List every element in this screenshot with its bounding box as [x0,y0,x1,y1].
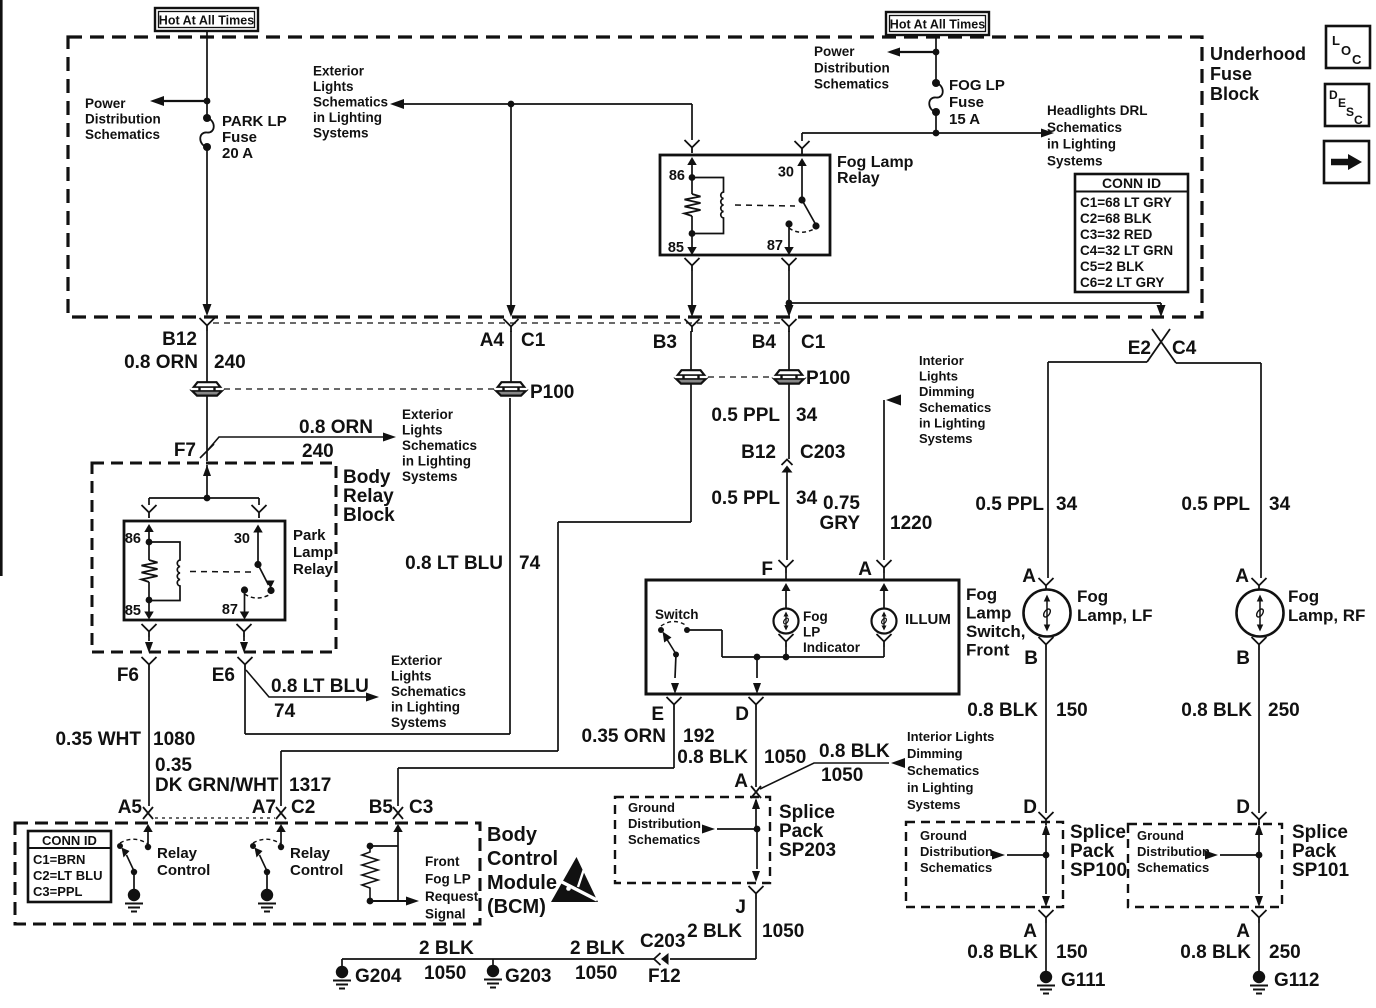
svg-text:C1=BRN: C1=BRN [33,852,85,867]
label Power Distribution Schematics right [814,44,890,92]
wire D to SP203 [755,710,757,787]
label B12 [162,329,197,350]
svg-text:B5: B5 [369,797,394,818]
wire E2 to LF [1048,362,1147,578]
BCM request resistor [362,824,419,906]
label Switch [655,607,699,622]
wire B4 chevron to P100 [788,331,790,371]
Body Relay Block outline [92,463,336,652]
svg-text:in Lighting: in Lighting [391,700,460,715]
svg-text:D: D [1236,797,1250,818]
wire branch to power distribution right [887,48,936,57]
label 2 BLK 1050 J [687,921,804,942]
label 0.8 LT BLU 74 ref [271,676,369,722]
label A RF [1235,566,1249,587]
svg-text:Splice: Splice [1070,822,1126,843]
svg-text:Systems: Systems [1047,153,1103,168]
park pin30 label [234,531,250,547]
wire to G111 [1045,923,1047,971]
BCM connector dotted link [155,817,275,819]
wire E to B5 [398,710,674,806]
label 2 BLK 1050 left [419,938,474,984]
terminal fog relay 30 [795,141,810,154]
svg-text:C3=32 RED: C3=32 RED [1080,227,1153,242]
terminal E [667,697,682,710]
BCM relay control 1 [117,824,153,912]
wire park 85 down [145,637,153,653]
svg-text:74: 74 [519,553,541,574]
svg-text:B: B [1024,648,1038,669]
svg-text:Power: Power [85,96,126,111]
coil fog relay [692,178,724,234]
svg-text:PARK LP: PARK LP [222,113,287,130]
label Exterior Lights Schematics E6 [391,653,466,730]
lamp Fog Lamp LF [1024,590,1071,637]
terminal below illum [877,634,892,647]
svg-text:Fuse: Fuse [1210,64,1252,84]
svg-text:240: 240 [214,352,246,373]
svg-text:0.5 PPL: 0.5 PPL [711,488,780,509]
label Front Fog LP Request Signal [425,854,479,922]
wire branch to power distribution [150,96,207,106]
svg-text:C4=32 LT GRN: C4=32 LT GRN [1080,243,1173,258]
label Fog LP Indicator [803,609,861,655]
svg-text:Lights: Lights [402,423,443,438]
pin 85 arrow [687,234,697,256]
svg-text:C: C [1354,113,1363,127]
svg-text:Dimming: Dimming [907,746,963,761]
svg-text:B: B [1236,648,1250,669]
reference arrow interior dimming top [884,395,901,561]
svg-text:C2=LT BLU: C2=LT BLU [33,868,102,883]
label 0.8 BLK 1050 D [677,747,806,768]
label G203 [505,966,551,987]
label G111 [1061,970,1106,991]
node relay blade end [812,222,819,229]
svg-text:F: F [761,559,773,580]
svg-text:FOG LP: FOG LP [949,77,1005,94]
terminal LF A [1039,578,1054,591]
wire to G112 [1258,923,1260,971]
reference tap 0.8 ORN 240 [207,433,396,452]
svg-text:D: D [1329,88,1338,102]
node relay coil bottom [689,230,696,237]
node park switch pivot [254,561,261,568]
terminal D SP100 [1039,812,1054,825]
Splice Pack SP203 label [779,802,836,861]
wire B3 down [690,331,692,371]
terminal J [749,886,764,899]
svg-text:SP100: SP100 [1070,860,1127,881]
svg-text:87: 87 [767,238,783,254]
svg-text:0.5 PPL: 0.5 PPL [711,405,780,426]
label B5 C3 [369,797,434,818]
label Fog Lamp RF [1288,587,1365,625]
label B12 C203 [741,442,845,463]
label J [735,897,746,918]
svg-text:Front: Front [966,641,1010,660]
connector C203 F12 [654,953,669,965]
svg-text:Block: Block [1210,84,1260,104]
svg-text:DK GRN/WHT: DK GRN/WHT [155,775,279,796]
svg-text:Relay: Relay [293,561,334,578]
svg-text:0.5 PPL: 0.5 PPL [1181,494,1250,515]
svg-text:1050: 1050 [762,921,804,942]
node relay switch pivot [798,196,805,203]
svg-text:1050: 1050 [821,765,863,786]
label F7 [174,440,196,461]
break slash F7 [200,444,214,458]
svg-text:15 A: 15 A [949,111,980,128]
pin87 label [767,238,783,254]
svg-text:Schematics: Schematics [1137,860,1209,875]
svg-text:F7: F7 [174,440,196,461]
label Relay Control 2 [290,845,343,879]
svg-text:Schematics: Schematics [814,77,889,92]
wire to E2 [789,303,1166,317]
svg-text:A: A [1235,566,1249,587]
svg-text:Schematics: Schematics [628,832,700,847]
splice SP101 [1205,824,1263,907]
svg-text:1317: 1317 [289,775,331,796]
terminal fog relay 86 [685,140,700,153]
pin 30 arrow [797,158,807,200]
label A illum [858,559,872,580]
svg-text:in Lighting: in Lighting [313,110,382,125]
svg-text:G111: G111 [1061,970,1106,991]
svg-text:C6=2 LT GRY: C6=2 LT GRY [1080,275,1164,290]
svg-text:C2: C2 [291,797,315,818]
Underhood Fuse Block outline [68,37,1202,317]
svg-text:E: E [1338,96,1346,110]
svg-text:C3=PPL: C3=PPL [33,884,83,899]
label D SP101 [1236,797,1250,818]
svg-text:Body: Body [343,467,391,488]
terminal park relay 86 [142,505,157,518]
svg-text:85: 85 [125,603,141,619]
svg-text:C5=2 BLK: C5=2 BLK [1080,259,1144,274]
svg-text:Body: Body [487,824,538,846]
wire E6 to A4C1 net [245,398,510,734]
crossover A5 [143,807,153,819]
svg-text:in Lighting: in Lighting [1047,137,1116,152]
svg-text:Exterior: Exterior [402,407,454,422]
ESD symbol [551,857,598,902]
svg-text:Fog: Fog [1077,587,1108,606]
wire B4 to C203 [788,384,790,459]
ground G112 [1250,971,1268,994]
terminal fog relay 85 out [685,258,700,271]
terminal B12 [200,318,215,331]
svg-text:0.8 BLK: 0.8 BLK [677,747,748,768]
svg-text:Switch: Switch [655,607,699,622]
connector dashed link B3-P100 [708,376,772,378]
svg-text:C203: C203 [640,931,685,952]
label 0.8 ORN 240 ref [299,417,373,462]
wire switch to E pin [671,654,679,694]
label 0.8 BLK 150 G111 [967,942,1087,963]
node relay 87 contact [785,220,792,227]
terminal park 85 out [142,624,157,637]
node park coil top [146,539,153,546]
connector P100 on B4 wire [773,370,805,383]
wire to relay pin30 [801,133,803,141]
svg-text:34: 34 [796,488,818,509]
wire A4 down [507,104,516,317]
label P100 B4 [806,368,850,389]
svg-text:G204: G204 [355,966,402,987]
label A5 [118,797,143,818]
svg-text:(BCM): (BCM) [487,896,546,918]
svg-text:Fog: Fog [803,609,828,624]
svg-text:1220: 1220 [890,513,932,534]
dashed coil-switch link [735,205,795,206]
svg-text:C2=68 BLK: C2=68 BLK [1080,211,1152,226]
CONN ID table underhood [1075,174,1188,292]
svg-text:Schematics: Schematics [391,684,466,699]
dashed park throw arc [245,594,270,598]
label A7 C2 [252,797,316,818]
coil park relay [149,542,180,601]
svg-text:Hot At All Times: Hot At All Times [159,14,254,28]
label 0.5 PPL 34 RF [1181,494,1290,515]
switch box Fog Lamp Switch [646,580,959,694]
svg-text:0.8 BLK: 0.8 BLK [1181,700,1252,721]
svg-text:85: 85 [668,240,684,256]
svg-text:Exterior: Exterior [391,653,443,668]
reference tap interior dimming bottom [760,758,905,789]
terminal switch F [779,560,794,582]
svg-text:F6: F6 [117,665,139,686]
splice SP203 [702,798,760,882]
svg-text:Exterior: Exterior [313,64,365,79]
terminal below indicator [779,634,794,647]
svg-text:Distribution: Distribution [85,112,161,127]
label 0.35 WHT 1080 [55,729,195,750]
label G112 [1274,970,1319,991]
label 0.5 PPL 34 lower [711,488,817,509]
wire J down [670,899,756,959]
svg-text:Control: Control [157,862,210,879]
svg-text:0.8 LT BLU: 0.8 LT BLU [271,676,369,697]
park pin85 label [125,603,141,619]
label 0.75 GRY 1220 [820,493,933,534]
svg-text:Systems: Systems [402,469,458,484]
label ILLUM [905,611,951,628]
svg-text:LP: LP [803,625,820,640]
label C203 F12 [640,931,685,987]
label Ground Distribution SP100 [920,828,993,875]
lamp ILLUM [872,609,897,634]
label F6 [117,665,139,686]
node park 87 contact [241,586,248,593]
connector P100 on A4 wire [495,382,527,395]
svg-text:Schematics: Schematics [1047,120,1122,135]
svg-text:0.35 WHT: 0.35 WHT [55,729,141,750]
svg-text:E: E [651,704,664,725]
wire 87 to B4 [785,271,794,317]
svg-text:G112: G112 [1274,970,1319,991]
svg-text:Control: Control [290,862,343,879]
splice SP100 [992,824,1050,907]
crossover A SP203 [751,786,761,798]
label Exterior Lights Schematics mid [402,407,477,484]
wire hot2 down [935,35,937,83]
node relay coil top [689,174,696,181]
wire park relay feed [149,495,259,505]
label 0.35 ORN 192 [582,726,715,747]
terminal RF A [1252,578,1267,591]
svg-text:Lights: Lights [313,79,354,94]
svg-text:Pack: Pack [1070,841,1115,862]
svg-text:74: 74 [274,701,296,722]
svg-text:Power: Power [814,44,855,59]
ground G204 [333,959,351,989]
connector on B12 wire [191,382,223,395]
svg-text:SP101: SP101 [1292,860,1349,881]
label PARK LP Fuse 20 A [222,113,287,162]
pin 87 arrow [784,224,794,255]
svg-text:Fuse: Fuse [222,129,257,146]
reference tap 0.8 LT BLU 74 [246,670,379,702]
svg-text:in Lighting: in Lighting [402,454,471,469]
svg-text:Headlights DRL: Headlights DRL [1047,103,1148,118]
label Power Distribution Schematics left [85,96,161,142]
scan edge strip [0,0,3,576]
wire DRL feed [802,129,1054,138]
relay box Fog Lamp Relay [660,155,830,255]
svg-text:C203: C203 [800,442,845,463]
wire park 87 down [240,637,248,653]
svg-text:in Lighting: in Lighting [919,415,985,430]
svg-text:Interior Lights: Interior Lights [907,729,994,744]
svg-text:Systems: Systems [391,715,447,730]
terminal switch A [877,560,892,582]
svg-text:240: 240 [302,441,334,462]
label 0.35 DK GRN WHT 1317 [155,755,331,796]
svg-text:Signal: Signal [425,907,466,922]
node A4 junction [508,101,515,108]
svg-text:Schematics: Schematics [907,763,979,778]
label Fog Lamp Switch Front [966,585,1026,660]
crossover B5 [393,807,403,819]
svg-text:192: 192 [683,726,715,747]
svg-text:Splice: Splice [779,802,835,823]
svg-text:F12: F12 [648,966,681,987]
svg-text:C1=68 LT GRY: C1=68 LT GRY [1080,195,1172,210]
label Exterior Lights Schematics top [313,64,388,141]
park pin 85 arrow [144,600,154,620]
pin30 label [778,165,794,181]
svg-text:Fog LP: Fog LP [425,872,471,887]
wire LF to SP100 [1045,650,1047,813]
Splice Pack SP100 outline [906,822,1063,907]
Body Control Module label [487,824,558,918]
park pin 87 arrow [240,590,250,620]
svg-text:30: 30 [234,531,250,547]
wire bus to D pin [753,657,761,694]
wire F6 to A5 [148,670,150,806]
svg-text:2 BLK: 2 BLK [687,921,742,942]
wire fog relay 86 up [691,104,693,140]
label Fog Lamp LF [1077,587,1153,625]
wire to grounds [342,958,654,960]
svg-text:A4: A4 [480,330,505,351]
svg-text:Switch,: Switch, [966,622,1026,641]
svg-text:B12: B12 [162,329,197,350]
label Park Lamp Relay [293,527,334,578]
label Interior Lights Dimming top [919,353,991,446]
switch symbol [658,622,690,658]
svg-text:Lights: Lights [391,669,432,684]
Underhood Fuse Block label [1210,44,1306,104]
label A LF [1022,566,1036,587]
connector dashed link to P100 [224,388,495,390]
svg-text:A5: A5 [118,797,143,818]
svg-text:Fuse: Fuse [949,94,984,111]
Body Control Module outline [15,823,480,924]
wire illum to bus [883,647,885,657]
label Headlights DRL Schematics [1047,103,1148,168]
svg-text:0.5 PPL: 0.5 PPL [975,494,1044,515]
svg-text:B12: B12 [741,442,776,463]
wire RF to SP101 [1258,650,1260,813]
svg-text:C3: C3 [409,797,433,818]
svg-text:1050: 1050 [424,963,466,984]
svg-text:A7: A7 [252,797,276,818]
switch contact wire [687,630,722,657]
svg-text:0.8 LT BLU: 0.8 LT BLU [405,553,503,574]
terminal A4 [504,319,519,332]
svg-text:2 BLK: 2 BLK [570,938,625,959]
label Ground Distribution SP101 [1137,828,1210,875]
Body Relay Block label [343,467,395,526]
svg-text:Systems: Systems [313,126,369,141]
terminal fog relay 87 out [782,258,797,271]
svg-text:Distribution: Distribution [920,844,993,859]
svg-text:Ground: Ground [920,828,967,843]
svg-text:Module: Module [487,872,557,894]
wire fuse1 down to B12 [203,147,212,316]
resistor fog relay [685,178,701,234]
relay box Park Lamp Relay [124,521,285,620]
label Relay Control 1 [157,845,210,879]
label FOG LP Fuse 15 A [949,77,1005,128]
svg-text:S: S [1346,105,1354,119]
DESC box [1325,84,1369,127]
node hot1 branch [204,98,211,105]
switch A pin arrow [880,583,889,609]
label 0.5 PPL 34 LF [975,494,1077,515]
park pin 30 arrow [253,525,263,565]
wire C203 to switch F [786,472,788,560]
wire indicator to bus [785,647,787,657]
wire exterior lights feed [390,99,692,109]
pin86 label [669,168,685,184]
svg-text:30: 30 [778,165,794,181]
svg-text:D: D [1023,797,1037,818]
park pin 86 arrow [144,524,154,542]
ground G203 [484,959,502,988]
svg-text:Relay: Relay [343,486,394,507]
label D SP100 [1023,797,1037,818]
Splice Pack SP203 outline [615,797,770,883]
terminal D SP101 [1252,812,1267,825]
svg-text:86: 86 [125,531,141,547]
Splice Pack SP100 label [1070,822,1127,881]
svg-text:O: O [1341,43,1351,58]
svg-text:Distribution: Distribution [814,60,890,75]
